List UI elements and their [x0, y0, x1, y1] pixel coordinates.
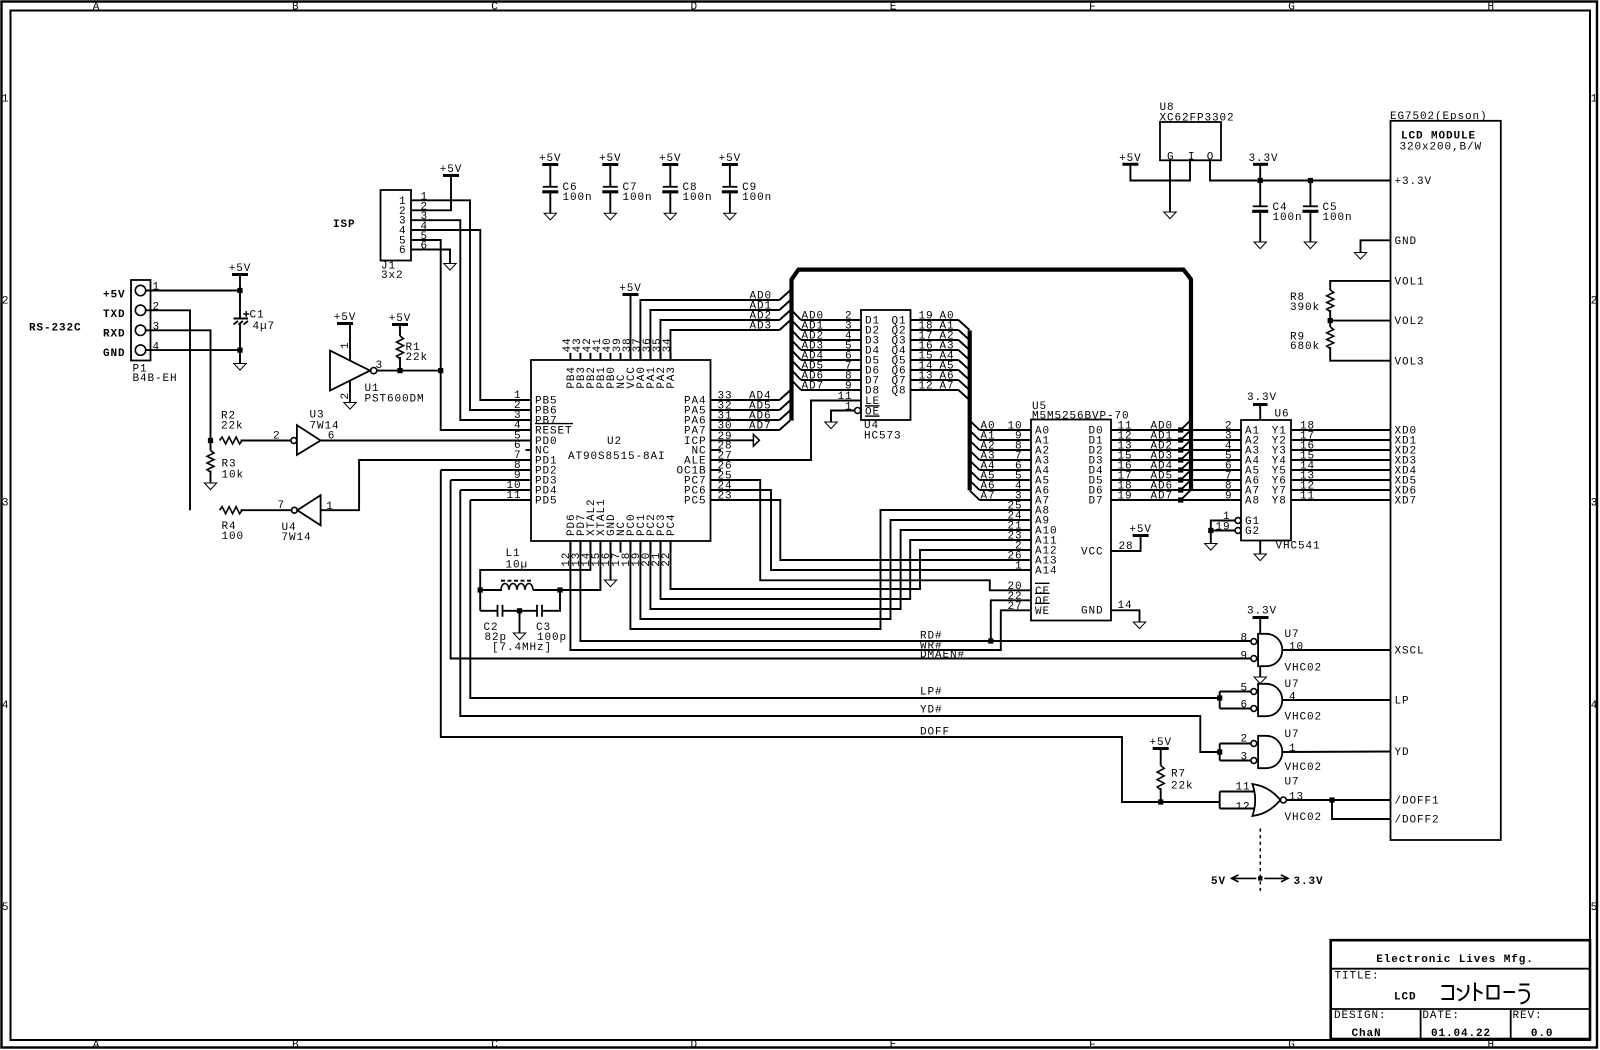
svg-text:B4B-EH: B4B-EH [133, 373, 178, 385]
wire D7 to U6 [1111, 499, 1241, 501]
svg-text:VHC541: VHC541 [1276, 541, 1321, 553]
svg-text:3: 3 [1240, 752, 1248, 764]
inverter U4 7W14 pointing left [292, 507, 298, 513]
gate U7d NOR [1252, 784, 1280, 816]
capacitor C7 100n [602, 163, 618, 166]
capacitor C9 100n [722, 163, 738, 166]
wires PA4-PA7 to AD4-AD7 [711, 399, 780, 401]
svg-text:PD5: PD5 [535, 496, 558, 508]
svg-text:LP: LP [1395, 696, 1410, 708]
svg-text:DMAEN#: DMAEN# [920, 649, 965, 661]
wire PD4 horiz [460, 489, 531, 491]
wire gate U7a output to XSCL [1283, 649, 1391, 651]
wire D0 to U6 [1111, 429, 1241, 431]
wire ALE to latch LE [711, 401, 862, 461]
svg-text:100n: 100n [742, 192, 772, 204]
svg-text:1: 1 [2, 94, 10, 106]
svg-text:AT90S8515-8AI: AT90S8515-8AI [568, 451, 666, 463]
resistor R8 390k [1330, 281, 1390, 290]
svg-text:F: F [1089, 1, 1097, 13]
3.3V rail from U8 output [1210, 160, 1391, 180]
svg-text:/DOFF1: /DOFF1 [1395, 796, 1440, 808]
svg-text:R7: R7 [1171, 769, 1186, 781]
svg-text:G: G [1288, 1, 1296, 13]
wire J1.5 reset line [411, 240, 531, 430]
svg-text:19: 19 [1215, 521, 1230, 533]
svg-text:AD3: AD3 [750, 320, 773, 332]
svg-text:100n: 100n [1323, 212, 1353, 224]
wire PC5 to A13 [711, 500, 1032, 560]
svg-text:3: 3 [153, 322, 161, 334]
svg-text:+5V: +5V [1119, 153, 1142, 165]
svg-text:DESIGN:: DESIGN: [1334, 1010, 1387, 1022]
connector P1 B4B-EH [131, 280, 151, 361]
wire PC1 to A9 [640, 520, 1031, 619]
svg-text:3.3V: 3.3V [1247, 606, 1277, 618]
capacitor C5 100n [1309, 181, 1311, 207]
svg-text:+5V: +5V [1149, 737, 1172, 749]
svg-text:D7: D7 [1088, 496, 1103, 508]
capacitor C1 4u7 polarized [234, 318, 249, 320]
+5V symbol at C1 [232, 273, 248, 276]
svg-text:10: 10 [1289, 642, 1304, 654]
svg-text:A14: A14 [1035, 566, 1058, 578]
svg-text:4: 4 [2, 700, 10, 712]
latch Q outputs to bus [911, 319, 959, 321]
wire PD5 LP# line [470, 500, 1219, 698]
svg-text:+5V: +5V [334, 312, 357, 324]
svg-text:+3.3V: +3.3V [1395, 176, 1433, 188]
svg-text:100n: 100n [563, 192, 593, 204]
U2 top pin stubs and rotated numbers [569, 353, 571, 360]
svg-text:E: E [890, 1, 898, 13]
gate U7 U7c YD [1258, 736, 1282, 768]
wire P1.4 GND [146, 349, 240, 351]
wire J1.2 to +5V [411, 177, 451, 211]
+5V symbol above J1 [443, 174, 459, 177]
svg-text:10k: 10k [222, 470, 245, 482]
address/data bus thick line [792, 270, 1192, 491]
wire R4 to U4 [241, 509, 292, 511]
OC1B pin26 stub [711, 469, 722, 471]
wire PD3 horiz [451, 479, 531, 481]
+5V above R1 [392, 323, 408, 326]
svg-text:1: 1 [1289, 743, 1297, 755]
svg-text:1: 1 [340, 341, 352, 349]
wire PC7 to CE [711, 480, 1032, 590]
wire gate U7b output to LP [1283, 699, 1391, 701]
svg-text:100n: 100n [1273, 212, 1303, 224]
IC U4 HC573 box [861, 310, 911, 420]
svg-text:PA3: PA3 [666, 366, 678, 389]
wire Y6 to XD5 [1291, 479, 1391, 481]
ground below U1 [344, 403, 356, 410]
wire D2 to U6 [1111, 449, 1241, 451]
svg-text:+5V: +5V [659, 153, 682, 165]
svg-text:D: D [690, 1, 698, 13]
IC U8 XC62FP3302 box [1160, 122, 1221, 160]
svg-text:VHC02: VHC02 [1285, 663, 1323, 675]
ground below U6 [1259, 541, 1261, 554]
wire P1.3 RXD down [146, 330, 211, 440]
NC pin28 stub [711, 449, 722, 451]
wire P1.2 TXD down [146, 310, 190, 510]
svg-text:E: E [890, 1040, 898, 1050]
wire U1 output [377, 370, 441, 372]
svg-text:D: D [690, 1040, 698, 1050]
U2 left stubs [526, 449, 532, 451]
title block [1331, 940, 1590, 1039]
latch output bus thick line [968, 331, 972, 491]
svg-text:AD7: AD7 [749, 420, 772, 432]
resistor R9 680k [1329, 321, 1331, 327]
5V / 3.3V boundary marker [1259, 829, 1261, 892]
svg-text:+5V: +5V [229, 263, 252, 275]
svg-text:Y8: Y8 [1272, 496, 1287, 508]
wire D1 to U6 [1111, 439, 1241, 441]
wire J1.1 to PB6 [411, 200, 531, 410]
svg-text:TITLE:: TITLE: [1335, 970, 1380, 982]
svg-text:+5V: +5V [1129, 524, 1152, 536]
svg-text:H: H [1487, 1, 1495, 13]
wire U4 input from PD1 [321, 460, 531, 510]
wire PD2 vertical from U2 [441, 469, 531, 471]
svg-text:HC573: HC573 [864, 430, 902, 442]
svg-text:DATE:: DATE: [1422, 1010, 1460, 1022]
svg-text:VCC: VCC [1081, 547, 1104, 559]
svg-text:7: 7 [277, 500, 285, 512]
wire Y7 to XD6 [1291, 489, 1391, 491]
wire PD4 YD# line [460, 490, 1219, 752]
svg-text:ISP: ISP [333, 219, 356, 231]
svg-text:VHC02: VHC02 [1285, 812, 1323, 824]
wire XTAL1 to resonator [560, 541, 600, 590]
ground U2 GND pin [610, 541, 612, 580]
svg-text:TXD: TXD [103, 309, 126, 321]
svg-text:L1: L1 [506, 548, 521, 560]
svg-text:3: 3 [1591, 498, 1599, 510]
ground below C1 [234, 364, 246, 371]
svg-text:M5M5256BVP-70: M5M5256BVP-70 [1032, 410, 1130, 422]
+5V above U2 VCC [623, 293, 639, 296]
latch D inputs from bus [792, 310, 802, 320]
svg-text:22k: 22k [406, 352, 429, 364]
capacitor C3 100p [520, 610, 538, 612]
svg-text:R3: R3 [222, 458, 237, 470]
inverter U3 7W14 [291, 438, 297, 444]
svg-text:4: 4 [1591, 700, 1599, 712]
svg-text:PC5: PC5 [684, 496, 707, 508]
svg-text:RXD: RXD [103, 329, 126, 341]
wire Y8 to XD7 [1291, 499, 1391, 501]
svg-text:100: 100 [222, 531, 245, 543]
wire R2 to U3 [241, 440, 291, 442]
svg-text:U7: U7 [1285, 729, 1300, 741]
svg-text:G: G [1288, 1040, 1296, 1050]
svg-text:A: A [93, 1, 101, 13]
svg-text:+5V: +5V [619, 283, 642, 295]
wire Y2 to XD1 [1291, 439, 1391, 441]
wires gate U7b inputs tied [1220, 691, 1251, 693]
resistor R3 10k [210, 441, 212, 451]
svg-text:H: H [1487, 1040, 1495, 1050]
svg-text:12: 12 [919, 380, 934, 392]
svg-text:REV:: REV: [1513, 1010, 1543, 1022]
svg-text:/DOFF2: /DOFF2 [1395, 815, 1440, 827]
wire Y5 to XD4 [1291, 469, 1391, 471]
svg-text:B: B [292, 1040, 300, 1050]
svg-text:AD7: AD7 [802, 380, 825, 392]
svg-text:B: B [292, 1, 300, 13]
wire OE tap [991, 600, 1031, 641]
svg-text:10µ: 10µ [506, 560, 529, 572]
svg-text:GND: GND [1081, 606, 1104, 618]
svg-text:2: 2 [273, 430, 281, 442]
svg-text:6: 6 [1240, 700, 1248, 712]
svg-text:2: 2 [2, 296, 10, 308]
svg-text:5V: 5V [1211, 876, 1226, 888]
svg-text:G2: G2 [1245, 526, 1260, 538]
resistor R4 100 [220, 507, 243, 514]
svg-text:[7.4MHz]: [7.4MHz] [492, 642, 552, 654]
svg-text:U7: U7 [1285, 629, 1300, 641]
wires gate U7d inputs [1220, 791, 1255, 793]
svg-text:5: 5 [1591, 902, 1599, 914]
svg-text:320x200,B/W: 320x200,B/W [1400, 141, 1483, 153]
+5V above U1 [337, 322, 353, 325]
wire PC0 to A8 [630, 510, 1031, 629]
svg-text:XD7: XD7 [1395, 496, 1418, 508]
svg-text:3x2: 3x2 [381, 270, 404, 282]
svg-text:3.3V: 3.3V [1294, 876, 1324, 888]
wire +5V to C1 [239, 276, 241, 319]
svg-text:VOL2: VOL2 [1395, 316, 1425, 328]
U2 RESET overline [535, 423, 573, 425]
svg-text:13: 13 [1289, 792, 1304, 804]
svg-text:A7: A7 [940, 380, 955, 392]
IC U5 M5M5256BVP-70 box [1031, 420, 1111, 621]
wire J1.4 to PB5 [411, 230, 531, 400]
svg-text:4µ7: 4µ7 [253, 321, 276, 333]
wire Y1 to XD0 [1291, 429, 1391, 431]
ICP pin29 stub with arrow [711, 439, 754, 441]
svg-text:6: 6 [399, 245, 407, 257]
svg-text:+5V: +5V [539, 153, 562, 165]
svg-text:+5V: +5V [389, 313, 412, 325]
svg-text:YD: YD [1395, 747, 1410, 759]
svg-text:GND: GND [1395, 236, 1418, 248]
svg-text:PST600DM: PST600DM [365, 393, 425, 405]
U5 A0-A7 inputs from latch bus [970, 421, 980, 431]
connector J1 3x2 [381, 190, 412, 261]
capacitor C4 100n [1259, 181, 1261, 207]
wire XTAL2 to resonator [480, 541, 590, 611]
svg-text:A7: A7 [981, 491, 996, 503]
svg-text:WE: WE [1035, 606, 1050, 618]
IC U6 VHC541 box [1241, 420, 1291, 541]
svg-text:LCD: LCD [1394, 992, 1417, 1004]
svg-text:1: 1 [1591, 94, 1599, 106]
gate U7 U7a XSCL [1258, 634, 1282, 666]
svg-text:9: 9 [1240, 650, 1248, 662]
svg-text:U6: U6 [1275, 409, 1290, 421]
ground below J1.6 [444, 264, 456, 271]
svg-text:+5V: +5V [103, 290, 126, 302]
svg-text:VHC02: VHC02 [1285, 712, 1323, 724]
svg-text:U2: U2 [607, 436, 622, 448]
svg-text:C: C [491, 1, 499, 13]
svg-text:C: C [491, 1040, 499, 1050]
svg-text:0.0: 0.0 [1531, 1028, 1554, 1040]
svg-text:DOFF: DOFF [920, 726, 950, 738]
svg-text:A: A [93, 1040, 101, 1050]
svg-text:1: 1 [845, 401, 853, 413]
LCD GND wire [1361, 240, 1391, 252]
resistor R1 22k [399, 326, 401, 337]
wire PD3 DMAEN# line [451, 480, 1251, 659]
svg-text:VHC02: VHC02 [1285, 762, 1323, 774]
svg-text:9: 9 [1225, 491, 1233, 503]
svg-text:7W14: 7W14 [282, 532, 312, 544]
svg-text:3.3V: 3.3V [1247, 392, 1277, 404]
wire PC3 to A11 [661, 540, 1032, 599]
U2 bottom pin stubs and rotated numbers [569, 541, 571, 553]
svg-text:4: 4 [1289, 692, 1297, 704]
capacitor C8 100n [662, 163, 678, 166]
svg-text:+5V: +5V [599, 153, 622, 165]
wire PC4 to A12 [671, 541, 1032, 589]
svg-text:2: 2 [153, 302, 161, 314]
wires gate U7c inputs tied [1220, 743, 1251, 745]
wire U1 pin2 to ground [349, 381, 351, 403]
svg-text:3: 3 [2, 498, 10, 510]
svg-text:100n: 100n [623, 192, 653, 204]
svg-text:1: 1 [153, 282, 161, 294]
svg-text:Q8: Q8 [891, 386, 906, 398]
wire D5 to U6 [1111, 479, 1241, 481]
svg-text:2: 2 [1591, 296, 1599, 308]
wire D3 to U6 [1111, 459, 1241, 461]
svg-text:VOL1: VOL1 [1395, 277, 1425, 289]
svg-text:3.3V: 3.3V [1248, 153, 1278, 165]
op-amp U1 PST600DM triangle [330, 351, 370, 391]
svg-text:1: 1 [326, 501, 334, 513]
wire +5V to U1 pin1 [349, 325, 351, 361]
wire J1.6 to ground [411, 250, 450, 264]
wire D4 to U6 [1111, 469, 1241, 471]
svg-text:C1: C1 [250, 310, 265, 322]
resistor R7 22k [1153, 747, 1169, 750]
U8 ground pin [1169, 160, 1171, 211]
svg-text:5: 5 [2, 902, 10, 914]
wire PD6 WR# line [570, 541, 1031, 650]
svg-text:22k: 22k [1171, 781, 1194, 793]
wire PD7 RD# line [580, 541, 1251, 641]
3.3V above U6 [1253, 403, 1268, 406]
resistor R2 22k [220, 437, 243, 444]
svg-text:XSCL: XSCL [1395, 646, 1425, 658]
svg-text:+5V: +5V [719, 153, 742, 165]
svg-text:VOL3: VOL3 [1395, 356, 1425, 368]
U6 G1 G2 enable pins [1235, 518, 1241, 524]
wire Y3 to XD2 [1291, 449, 1391, 451]
ground below R3 [204, 483, 216, 490]
svg-text:8: 8 [1240, 632, 1248, 644]
wire PD2 DOFF line [441, 470, 1220, 802]
wire PC2 to A10 [650, 530, 1031, 609]
svg-text:5: 5 [1240, 682, 1248, 694]
wires PA0-PA3 to AD0-AD3 [640, 300, 779, 360]
svg-text:100n: 100n [683, 192, 713, 204]
wire Y4 to XD3 [1291, 459, 1391, 461]
wire U3 output to PD0 [321, 440, 531, 442]
gate U7 U7b LP [1258, 684, 1282, 716]
svg-text:+5V: +5V [440, 164, 463, 176]
svg-text:LP#: LP# [920, 686, 943, 698]
ground below latch OE [825, 422, 837, 429]
svg-text:01.04.22: 01.04.22 [1431, 1028, 1491, 1040]
wire PC6 to A14 [711, 490, 1032, 570]
IC U2 AT90S8515-8AI box [531, 360, 711, 541]
svg-text:U7: U7 [1285, 679, 1300, 691]
svg-text:Electronic Lives Mfg.: Electronic Lives Mfg. [1376, 954, 1534, 966]
svg-text:XC62FP3302: XC62FP3302 [1160, 112, 1235, 124]
svg-text:F: F [1089, 1040, 1097, 1050]
svg-text:ChaN: ChaN [1352, 1028, 1382, 1040]
svg-text:PC4: PC4 [666, 513, 678, 536]
svg-text:34: 34 [662, 337, 674, 352]
wire P1.1 to +5V [146, 290, 240, 292]
svg-text:YD#: YD# [920, 704, 943, 716]
wire J1.3 to PB7 [411, 220, 531, 420]
capacitor C2 82p [480, 610, 497, 612]
capacitor C6 100n [542, 163, 558, 166]
svg-text:GND: GND [103, 348, 126, 360]
+5V to U8 input [1122, 163, 1138, 166]
svg-text:4: 4 [153, 341, 161, 353]
svg-text:680k: 680k [1290, 341, 1320, 353]
3.3V above gate U7a [1253, 616, 1269, 619]
svg-text:U7: U7 [1285, 777, 1300, 789]
wire gate U7c output to YD [1283, 751, 1391, 754]
svg-text:6: 6 [421, 241, 429, 253]
ground below U7a [1259, 666, 1261, 677]
wire D6 to U6 [1111, 489, 1241, 491]
wire gate U7d output to /DOFF1 /DOFF2 [1286, 799, 1390, 801]
3.3V symbol [1253, 163, 1268, 166]
wire PD5 horiz [470, 499, 531, 501]
svg-text:22k: 22k [221, 421, 244, 433]
svg-text:390k: 390k [1290, 302, 1320, 314]
inductor L1 10u [478, 587, 483, 592]
svg-text:A8: A8 [1245, 496, 1260, 508]
ground below C2 C3 [519, 611, 521, 633]
svg-text:RS-232C: RS-232C [29, 323, 82, 335]
